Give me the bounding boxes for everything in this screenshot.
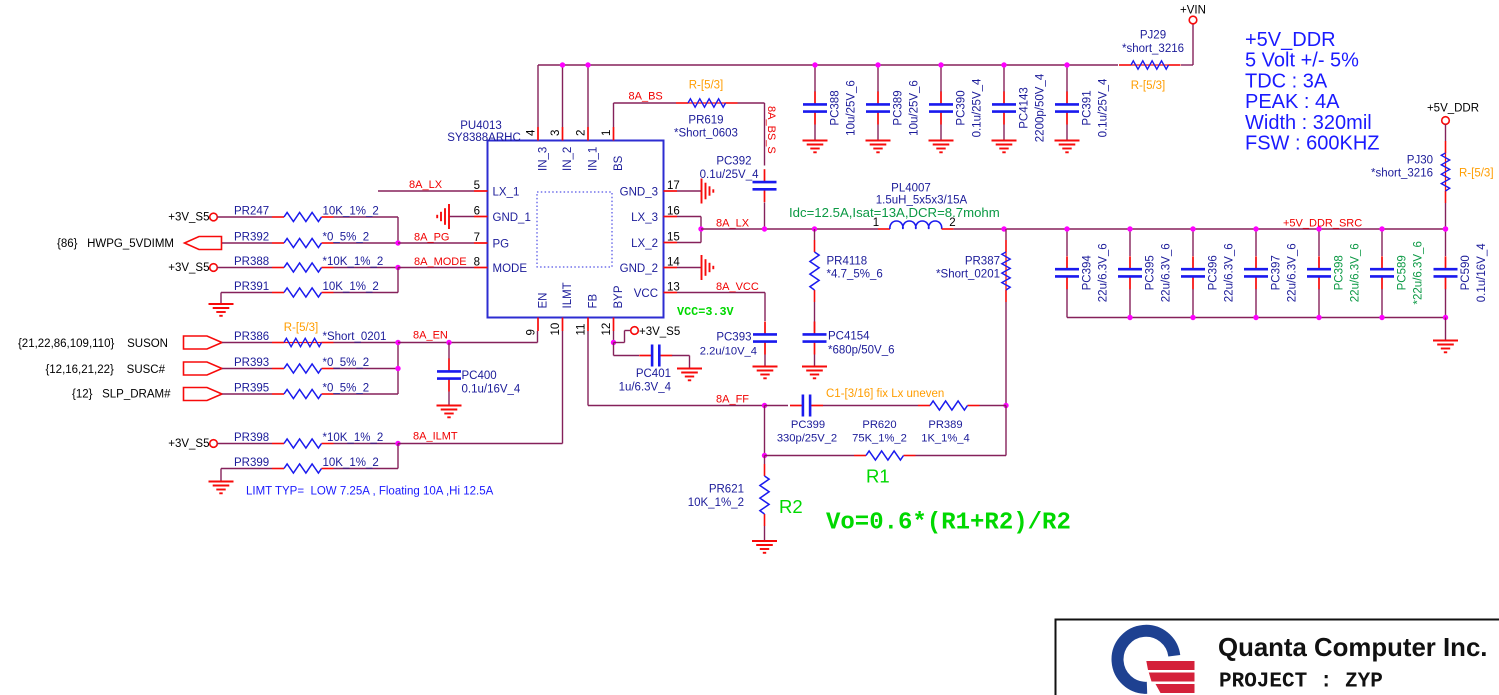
svg-text:+3V_S5: +3V_S5 [639, 326, 680, 338]
svg-text:{12,16,21,22} SUSC#: {12,16,21,22} SUSC# [45, 364, 165, 376]
svg-text:LIMT TYP= LOW 7.25A , Floatin: LIMT TYP= LOW 7.25A , Floating 10A ,Hi 1… [246, 486, 494, 498]
svg-text:GND_2: GND_2 [620, 263, 658, 275]
svg-text:PR619: PR619 [688, 115, 723, 127]
svg-text:1u/6.3V_4: 1u/6.3V_4 [619, 382, 672, 394]
svg-text:PC395: PC395 [1145, 255, 1157, 290]
svg-text:2: 2 [576, 130, 588, 136]
svg-text:PR389: PR389 [928, 419, 962, 431]
svg-text:0.1u/16V_4: 0.1u/16V_4 [462, 384, 521, 396]
svg-text:8A_ILMT: 8A_ILMT [413, 431, 458, 443]
svg-text:PR620: PR620 [862, 419, 896, 431]
svg-text:22u/6.3V_6: 22u/6.3V_6 [1287, 243, 1299, 302]
svg-text:330p/25V_2: 330p/25V_2 [777, 433, 837, 445]
svg-text:16: 16 [667, 206, 680, 218]
svg-text:*0_5%_2: *0_5%_2 [323, 232, 370, 244]
svg-text:4: 4 [526, 129, 538, 136]
svg-text:C1-[3/16] fix Lx uneven: C1-[3/16] fix Lx uneven [826, 388, 944, 400]
svg-text:BS: BS [613, 155, 625, 171]
svg-text:SY8388ARHC: SY8388ARHC [447, 132, 521, 144]
svg-text:ILMT: ILMT [562, 282, 574, 308]
svg-text:10K_1%_2: 10K_1%_2 [688, 497, 744, 509]
svg-text:PU4013: PU4013 [460, 120, 502, 132]
svg-text:1: 1 [601, 130, 613, 136]
svg-text:+3V_S5: +3V_S5 [168, 212, 209, 224]
svg-text:10K_1%_2: 10K_1%_2 [323, 206, 379, 218]
svg-text:FSW : 600KHZ: FSW : 600KHZ [1245, 133, 1379, 155]
svg-text:10u/25V_6: 10u/25V_6 [846, 80, 858, 136]
svg-text:+5V_DDR_SRC: +5V_DDR_SRC [1283, 218, 1362, 230]
svg-text:BYP: BYP [613, 285, 625, 308]
svg-text:+3V_S5: +3V_S5 [168, 438, 209, 450]
svg-text:8A_MODE: 8A_MODE [414, 256, 467, 268]
svg-text:Quanta Computer Inc.: Quanta Computer Inc. [1218, 634, 1487, 662]
svg-text:PC392: PC392 [716, 156, 751, 168]
svg-text:10u/25V_6: 10u/25V_6 [909, 80, 921, 136]
svg-text:PJ29: PJ29 [1140, 30, 1166, 42]
svg-text:PG: PG [493, 239, 510, 251]
svg-text:LX_1: LX_1 [493, 187, 520, 199]
svg-text:13: 13 [667, 282, 680, 294]
svg-text:R-[5/3]: R-[5/3] [689, 80, 724, 92]
svg-text:PR4118: PR4118 [827, 256, 868, 268]
svg-text:FB: FB [588, 293, 600, 308]
svg-text:12: 12 [601, 323, 613, 336]
svg-text:2.2u/10V_4: 2.2u/10V_4 [700, 346, 757, 358]
svg-text:PR387: PR387 [965, 256, 1000, 268]
svg-text:*short_3216: *short_3216 [1122, 43, 1184, 55]
svg-text:PC401: PC401 [636, 368, 671, 380]
svg-text:*Short_0201: *Short_0201 [323, 331, 387, 343]
svg-text:0.1u/25V_4: 0.1u/25V_4 [700, 169, 759, 181]
svg-text:PR398: PR398 [234, 432, 269, 444]
svg-text:3: 3 [550, 130, 562, 136]
svg-text:PJ30: PJ30 [1407, 155, 1433, 167]
svg-text:*10K_1%_2: *10K_1%_2 [323, 432, 384, 444]
svg-text:8A_LX: 8A_LX [409, 179, 443, 191]
svg-text:IN_1: IN_1 [588, 147, 600, 171]
svg-text:PL4007: PL4007 [891, 183, 931, 195]
svg-text:*Short_0603: *Short_0603 [674, 128, 738, 140]
svg-text:PC590: PC590 [1460, 255, 1472, 290]
svg-text:VCC: VCC [634, 288, 658, 300]
svg-text:PC394: PC394 [1082, 255, 1094, 291]
svg-text:R1: R1 [866, 466, 890, 487]
svg-text:PR399: PR399 [234, 457, 269, 469]
svg-text:PC388: PC388 [830, 90, 842, 125]
svg-text:8A_VCC: 8A_VCC [716, 281, 759, 293]
svg-text:8A_BS: 8A_BS [629, 91, 663, 103]
svg-text:PC396: PC396 [1208, 255, 1220, 290]
svg-text:+3V_S5: +3V_S5 [168, 262, 209, 274]
svg-text:2200p/50V_4: 2200p/50V_4 [1035, 73, 1047, 142]
svg-text:*short_3216: *short_3216 [1371, 168, 1433, 180]
svg-text:MODE: MODE [493, 263, 528, 275]
svg-text:10K_1%_2: 10K_1%_2 [323, 281, 379, 293]
svg-text:+5V_DDR: +5V_DDR [1427, 103, 1479, 115]
svg-text:Idc=12.5A,Isat=13A,DCR=8.7mohm: Idc=12.5A,Isat=13A,DCR=8.7mohm [789, 205, 1000, 220]
svg-text:22u/6.3V_6: 22u/6.3V_6 [1224, 243, 1236, 302]
svg-text:8A_BS_S: 8A_BS_S [765, 106, 777, 154]
svg-text:IN_3: IN_3 [538, 147, 550, 171]
svg-text:7: 7 [474, 232, 480, 244]
svg-text:75K_1%_2: 75K_1%_2 [852, 433, 907, 445]
svg-text:PC400: PC400 [462, 370, 497, 382]
svg-text:{12} SLP_DRAM#: {12} SLP_DRAM# [72, 389, 171, 401]
svg-text:5: 5 [474, 180, 480, 192]
svg-text:8A_LX: 8A_LX [716, 218, 750, 230]
svg-text:*10K_1%_2: *10K_1%_2 [323, 256, 384, 268]
svg-text:0.1u/25V_4: 0.1u/25V_4 [1098, 78, 1110, 137]
svg-text:PR621: PR621 [709, 484, 744, 496]
svg-text:PC589: PC589 [1397, 255, 1409, 290]
svg-text:*22u/6.3V_6: *22u/6.3V_6 [1413, 241, 1425, 304]
svg-text:PC398: PC398 [1334, 255, 1346, 290]
svg-text:*0_5%_2: *0_5%_2 [323, 383, 370, 395]
svg-text:*4.7_5%_6: *4.7_5%_6 [827, 269, 883, 281]
svg-text:PC4154: PC4154 [828, 331, 870, 343]
svg-text:PR388: PR388 [234, 256, 269, 268]
svg-text:PC399: PC399 [791, 419, 825, 431]
svg-text:22u/6.3V_6: 22u/6.3V_6 [1098, 243, 1110, 302]
svg-text:Vo=0.6*(R1+R2)/R2: Vo=0.6*(R1+R2)/R2 [826, 510, 1071, 537]
svg-text:PROJECT : ZYP: PROJECT : ZYP [1219, 671, 1383, 694]
svg-text:8A_EN: 8A_EN [413, 330, 448, 342]
svg-text:17: 17 [667, 180, 680, 192]
svg-text:R2: R2 [779, 496, 803, 517]
svg-text:22u/6.3V_6: 22u/6.3V_6 [1161, 243, 1173, 302]
svg-text:PC397: PC397 [1271, 255, 1283, 290]
svg-text:14: 14 [667, 257, 680, 269]
svg-text:LX_2: LX_2 [631, 238, 658, 250]
svg-text:+VIN: +VIN [1180, 5, 1206, 17]
svg-text:0.1u/25V_4: 0.1u/25V_4 [972, 78, 984, 137]
svg-text:VCC=3.3V: VCC=3.3V [677, 305, 735, 319]
svg-text:PR247: PR247 [234, 206, 269, 218]
svg-text:R-[5/3]: R-[5/3] [1459, 168, 1494, 180]
svg-text:1K_1%_4: 1K_1%_4 [921, 433, 970, 445]
svg-text:15: 15 [667, 232, 680, 244]
svg-text:PC393: PC393 [716, 332, 751, 344]
svg-text:PEAK : 4A: PEAK : 4A [1245, 91, 1340, 113]
svg-text:GND_3: GND_3 [620, 187, 658, 199]
svg-text:PR395: PR395 [234, 383, 269, 395]
svg-text:LX_3: LX_3 [631, 212, 658, 224]
svg-text:*0_5%_2: *0_5%_2 [323, 357, 370, 369]
svg-text:*Short_0201: *Short_0201 [936, 269, 1000, 281]
svg-text:PC391: PC391 [1082, 90, 1094, 125]
svg-text:10: 10 [550, 323, 562, 336]
svg-text:8: 8 [474, 257, 480, 269]
svg-text:R-[5/3]: R-[5/3] [284, 322, 319, 334]
svg-text:10K_1%_2: 10K_1%_2 [323, 457, 379, 469]
svg-text:TDC : 3A: TDC : 3A [1245, 70, 1328, 92]
svg-text:8A_PG: 8A_PG [414, 232, 449, 244]
svg-text:PR393: PR393 [234, 357, 269, 369]
svg-text:11: 11 [576, 324, 588, 336]
svg-text:6: 6 [474, 206, 480, 218]
svg-text:PR386: PR386 [234, 331, 269, 343]
svg-text:5 Volt +/- 5%: 5 Volt +/- 5% [1245, 50, 1359, 72]
svg-text:PR391: PR391 [234, 281, 269, 293]
svg-text:Width : 320mil: Width : 320mil [1245, 112, 1372, 134]
svg-text:22u/6.3V_6: 22u/6.3V_6 [1350, 243, 1362, 302]
svg-text:+5V_DDR: +5V_DDR [1245, 29, 1336, 51]
svg-text:EN: EN [538, 293, 550, 309]
svg-text:{86} HWPG_5VDIMM: {86} HWPG_5VDIMM [57, 238, 174, 250]
svg-text:IN_2: IN_2 [562, 147, 574, 171]
svg-text:PR392: PR392 [234, 232, 269, 244]
svg-text:R-[5/3]: R-[5/3] [1131, 80, 1166, 92]
svg-text:GND_1: GND_1 [493, 212, 531, 224]
svg-text:0.1u/16V_4: 0.1u/16V_4 [1476, 243, 1488, 302]
svg-text:*680p/50V_6: *680p/50V_6 [828, 345, 895, 357]
svg-text:PC4143: PC4143 [1019, 87, 1031, 129]
svg-text:{21,22,86,109,110} SUSON: {21,22,86,109,110} SUSON [18, 338, 168, 350]
svg-text:PC389: PC389 [893, 90, 905, 125]
svg-text:8A_FF: 8A_FF [716, 394, 749, 406]
svg-text:PC390: PC390 [956, 90, 968, 125]
svg-text:9: 9 [526, 329, 538, 335]
